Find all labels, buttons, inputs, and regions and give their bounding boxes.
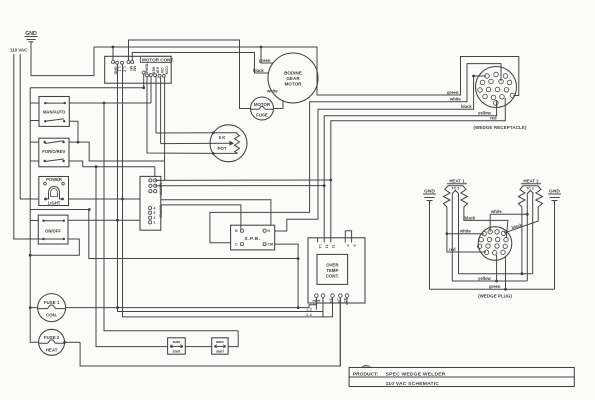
svg-text:L1: L1 [318,245,322,249]
svg-text:4: 4 [154,207,156,211]
svg-text:start: start [173,350,182,354]
svg-text:FOR/O/REV: FOR/O/REV [42,149,65,154]
svg-text:OVER: OVER [326,263,339,268]
svg-text:T2: T2 [331,245,335,249]
wire pot feed pins [160,77,162,143]
svg-text:CON.: CON. [46,313,57,318]
svg-text:110 VAC: 110 VAC [10,48,28,53]
svg-text:MOTOR CONT.: MOTOR CONT. [142,58,174,63]
svg-text:green: green [447,90,459,95]
svg-text:white: white [459,229,471,234]
wire MAN/AUTO top right long drop [69,102,151,104]
switch S2 FOR/O/REV [39,138,69,167]
svg-text:start: start [216,350,225,354]
svg-text:HEAT 1: HEAT 1 [449,179,465,184]
svg-text:red: red [449,247,456,252]
svg-text:S.P.B.: S.P.B. [244,236,260,241]
svg-text:CONT.: CONT. [326,274,339,279]
svg-text:M2: M2 [133,66,137,71]
svg-text:GEN: GEN [151,67,155,75]
svg-text:SPEC WEDGE WELDER: SPEC WEDGE WELDER [386,371,446,377]
motor M1 BODINE GEAR MOTOR [268,53,318,103]
svg-text:T1: T1 [325,245,329,249]
svg-text:FUSE: FUSE [256,113,268,118]
wire pot top feed [156,132,213,134]
svg-text:GND: GND [113,67,117,75]
wire on/off top to strip [68,219,140,221]
connector J1 wedge receptacle [476,67,517,108]
ground GND top-left [25,31,38,42]
svg-text:(WEDGE RECEPTACLE): (WEDGE RECEPTACLE) [473,125,527,130]
wire strip run to receptacle red [155,179,331,181]
svg-text:ON/OFF: ON/OFF [45,229,61,234]
over temperature controller U2 [308,238,365,305]
wire green to receptacle [261,47,519,96]
fuse F-M MOTOR FUSE [251,97,274,120]
svg-text:black: black [461,104,472,109]
svg-text:yellow: yellow [478,276,492,281]
svg-text:white: white [449,97,461,102]
wire strip run to receptacle yellow [155,185,324,187]
wire TERM pin to left bus [143,74,145,88]
wire black receptacle run [275,76,486,231]
svg-text:1: 1 [154,221,156,225]
svg-text:red: red [490,116,497,121]
svg-text:green: green [259,58,271,63]
potentiometer R1 5K POT [161,125,247,162]
svg-text:black: black [253,68,264,73]
connector P1 wedge plug [478,227,512,261]
wire mid link [459,273,533,275]
svg-text:A1R: A1R [156,67,160,74]
wire green into motor [261,47,273,63]
wire strip to SPB runs [161,200,271,225]
bus wire y=366 fuse2 to over temp [80,298,340,366]
wire power area link [30,209,89,211]
svg-text:2: 2 [154,216,156,220]
svg-text:CM: CM [268,243,273,247]
wire L2 pin drop [123,64,333,317]
wire motor fuse to motor white [274,101,284,109]
svg-text:FUSE 1: FUSE 1 [44,300,60,305]
svg-text:auto: auto [216,340,224,344]
svg-text:BODINE: BODINE [284,71,302,76]
svg-text:L 1: L 1 [307,313,312,317]
svg-text:L 2: L 2 [307,308,312,312]
ground GND right-left [423,189,436,201]
svg-text:MOTOR: MOTOR [158,183,162,196]
wire heat2 inner lead [532,194,534,274]
wire L1 pin drop [118,64,324,311]
lamp DS1 POWER LIGHT [39,177,69,206]
svg-text:MOTOR: MOTOR [284,82,302,87]
wire heat2 white [526,194,528,282]
wire green bus to motor [113,46,261,48]
motor controller U1 MOTOR CONT. [105,56,174,83]
node junction at GND pin [112,46,115,49]
fuse F2 HEAT [39,329,65,355]
switch S3 ON/OFF [38,215,68,244]
ground GND right-right [548,189,561,201]
svg-text:POT: POT [217,146,226,151]
svg-text:white: white [490,209,502,214]
wire GND stem to bus [31,42,113,76]
wire white receptacle run [210,64,501,243]
wire drop to auto-start loop [96,167,168,347]
svg-text:CW: CW [160,68,164,74]
wire red receptacle run [331,98,506,238]
svg-text:(WEDGE PLUG): (WEDGE PLUG) [478,294,512,299]
wire on/off left stub [30,220,38,222]
wire auto start series [185,346,211,348]
svg-text:PRODUCT:: PRODUCT: [353,371,379,377]
heater HEAT 2 [518,179,542,208]
svg-text:CCW: CCW [164,66,168,75]
svg-text:SWITCH: SWITCH [158,205,162,219]
wire fuse1 bus right [30,307,37,309]
relay K1 S.P.B. [231,225,275,250]
wire GEN pins to terminal strip [147,77,213,154]
title block [349,365,574,387]
wire SPB bottom right drop [275,244,298,308]
heater HEAT 1 [443,179,467,208]
wire M1 to motor fuse [129,40,251,109]
svg-text:HEAT: HEAT [46,348,58,353]
wire 110VAC line B [20,54,39,199]
wire power light right [69,198,141,200]
switch S5 auto start 2 [212,338,228,354]
svg-text:POWER: POWER [46,177,62,182]
svg-text:TERM: TERM [144,63,148,73]
wire M2 black to motor [132,53,268,74]
svg-text:TEMP: TEMP [326,268,338,273]
svg-text:white: white [266,89,278,94]
svg-text:5 K: 5 K [219,135,227,140]
wire left feed bus [29,88,31,308]
fuse F1 CON [38,294,66,322]
terminal strip TB1 [140,176,162,230]
svg-text:green: green [489,284,501,289]
svg-text:M1: M1 [129,66,133,71]
svg-text:GEAR: GEAR [286,76,300,81]
svg-text:10: 10 [330,301,334,305]
svg-text:110 VAC SCHEMATIC: 110 VAC SCHEMATIC [386,381,440,387]
wire heat1 white [447,207,486,252]
wire heat2 black diagonal [504,207,538,233]
svg-text:MAN/AUTO: MAN/AUTO [43,110,66,115]
svg-text:3: 3 [154,211,156,215]
svg-text:black: black [465,215,476,220]
wire heat1 inner leads [451,194,453,282]
wire yellow receptacle run [324,100,496,238]
wire FOR bottom right to pot bottom [69,161,155,176]
wire on/off bottom to fuse bus [30,239,79,255]
switch S4 auto start 1 [168,338,186,354]
wire heat1 black [464,207,508,238]
svg-text:HEAT 2: HEAT 2 [523,179,539,184]
svg-text:auto: auto [173,340,181,344]
switch S1 MAN/AUTO [39,97,69,127]
wire yellow plug [452,280,527,282]
svg-text:LIGHT: LIGHT [48,201,61,206]
wire FOR top right to pot middle [69,142,165,161]
wire bus 258 [89,210,298,259]
wire green plug [430,288,555,290]
wire jumper over temp top [345,231,351,238]
svg-text:TC 2: TC 2 [526,187,534,191]
wire MAN/AUTO bottom right to FOR bus [69,121,78,142]
wire over temp pin drops [315,297,317,309]
wire 110VAC line A [14,54,44,239]
wire GND pin drop [112,47,114,60]
